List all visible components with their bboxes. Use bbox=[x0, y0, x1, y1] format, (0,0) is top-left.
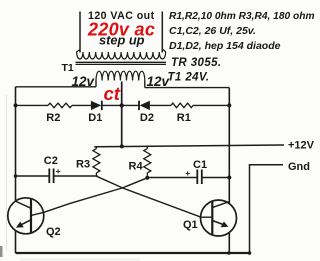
transistor Q2 collector bbox=[15, 201, 31, 208]
wire R3 bottom stub bbox=[95, 173, 97, 176]
wire top-left horizontal to primary bbox=[16, 86, 97, 88]
resistor R3 bbox=[93, 149, 100, 173]
svg-text:C1,C2, 26 Uf, 25v.: C1,C2, 26 Uf, 25v. bbox=[169, 25, 256, 37]
junction dot right bus / C1 bbox=[227, 176, 231, 180]
svg-text:Gnd: Gnd bbox=[288, 161, 310, 173]
wire center tap ct vertical bbox=[121, 82, 123, 147]
wire base line R2 D1 D2 R1 bbox=[16, 104, 230, 106]
transformer T1 primary lead right bbox=[144, 81, 146, 88]
svg-text:C2: C2 bbox=[44, 155, 58, 167]
junction dot left bus / C2 bbox=[14, 174, 18, 178]
svg-text:C1: C1 bbox=[193, 159, 207, 171]
wire R4 top drop bbox=[146, 147, 148, 149]
junction dot ct / +12V rail bbox=[120, 144, 124, 148]
diode D1 bbox=[91, 101, 101, 110]
wire top-right horizontal from primary bbox=[145, 87, 230, 89]
scan smudge bottom-left bbox=[0, 246, 3, 257]
svg-text:R1: R1 bbox=[177, 112, 191, 124]
svg-text:R4: R4 bbox=[129, 160, 144, 172]
svg-text:Q1: Q1 bbox=[183, 219, 198, 231]
svg-text:T1: T1 bbox=[62, 62, 74, 74]
svg-text:R1,R2,10 0hm R3,R4, 180 ohm: R1,R2,10 0hm R3,R4, 180 ohm bbox=[169, 11, 315, 22]
transformer T1 secondary winding bbox=[77, 50, 166, 60]
svg-text:R2: R2 bbox=[46, 112, 60, 124]
svg-text:Q2: Q2 bbox=[46, 226, 61, 238]
junction dot rail / gnd branch bbox=[248, 251, 252, 255]
svg-text:ct: ct bbox=[104, 83, 121, 104]
svg-text:12v: 12v bbox=[72, 74, 96, 89]
transistor Q2 base bar bbox=[30, 199, 32, 233]
svg-text:12v: 12v bbox=[147, 74, 171, 89]
wire cross-coupling R3 to Q1 base bbox=[96, 176, 212, 217]
transistor Q1 base bar bbox=[211, 201, 213, 235]
resistor R2 bbox=[48, 103, 72, 108]
svg-text:step up: step up bbox=[99, 33, 145, 48]
wire cross-coupling R4 to Q2 base bbox=[31, 178, 147, 216]
junction dot left bus / R2 bbox=[14, 103, 18, 107]
wire bottom rail bbox=[16, 252, 250, 254]
diode D2 bbox=[140, 101, 150, 110]
svg-text:D1: D1 bbox=[88, 112, 102, 124]
svg-text:R3: R3 bbox=[76, 159, 90, 171]
wire R3 top drop bbox=[95, 147, 97, 149]
junction dot Q1 emitter / rail bbox=[227, 251, 231, 255]
wire R4 bottom stub bbox=[146, 173, 148, 178]
wire Gnd branch bbox=[250, 165, 284, 253]
transformer T1 primary winding bbox=[96, 71, 145, 80]
transistor Q2 emitter with arrow bbox=[20, 220, 31, 226]
svg-text:+: + bbox=[185, 168, 190, 178]
wire +12V rail bbox=[94, 145, 284, 147]
junction dot right bus / R1 bbox=[227, 103, 231, 107]
svg-text:+12V: +12V bbox=[288, 140, 315, 152]
transistor Q1 collector bbox=[212, 201, 230, 207]
junction dot R4 bottom bbox=[145, 176, 149, 180]
capacitor C1 plates bbox=[197, 170, 202, 185]
svg-text:D2: D2 bbox=[140, 112, 154, 124]
capacitor C1 wires bbox=[147, 177, 229, 179]
transformer T1 secondary lead right bbox=[161, 12, 163, 53]
transistor Q2 circle bbox=[8, 198, 44, 234]
capacitor C2 plates bbox=[49, 169, 53, 184]
wire left bus vertical bbox=[15, 87, 17, 253]
junction dot ct / diode line bbox=[120, 103, 124, 107]
scan smudge bottom edge bbox=[20, 259, 140, 261]
capacitor C2 wires bbox=[16, 175, 98, 177]
transistor Q1 circle bbox=[201, 200, 237, 236]
svg-text:D1,D2, hep 154 diaode: D1,D2, hep 154 diaode bbox=[169, 40, 281, 52]
resistor R1 bbox=[171, 103, 193, 108]
svg-text:TR 3055.: TR 3055. bbox=[171, 57, 222, 69]
svg-text:+: + bbox=[56, 166, 61, 176]
transformer T1 secondary lead left bbox=[79, 12, 81, 53]
resistor R4 bbox=[144, 149, 151, 173]
wire right bus vertical bbox=[228, 88, 230, 253]
scan artifact faint left-edge line bbox=[6, 95, 8, 250]
svg-text:T1 24V.: T1 24V. bbox=[168, 72, 210, 84]
transformer T1 primary lead left bbox=[95, 81, 97, 87]
transformer T1 core bbox=[76, 62, 167, 64]
transistor Q1 emitter with arrow bbox=[212, 221, 224, 226]
